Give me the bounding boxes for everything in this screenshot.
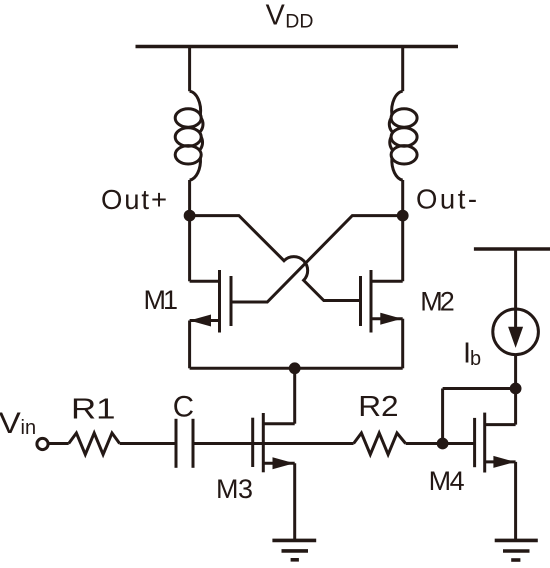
- svg-text:M1: M1: [144, 285, 179, 315]
- svg-text:R2: R2: [358, 391, 398, 423]
- svg-text:M3: M3: [216, 474, 253, 504]
- svg-text:R1: R1: [71, 392, 115, 425]
- svg-text:b: b: [470, 348, 481, 370]
- svg-text:V: V: [0, 406, 21, 439]
- svg-text:M2: M2: [420, 286, 455, 316]
- svg-text:C: C: [173, 390, 194, 423]
- svg-text:Out+: Out+: [101, 184, 167, 215]
- svg-text:M4: M4: [429, 466, 465, 496]
- svg-text:in: in: [21, 417, 37, 439]
- svg-text:DD: DD: [285, 11, 313, 33]
- svg-text:Out-: Out-: [416, 184, 477, 215]
- svg-text:V: V: [266, 0, 286, 32]
